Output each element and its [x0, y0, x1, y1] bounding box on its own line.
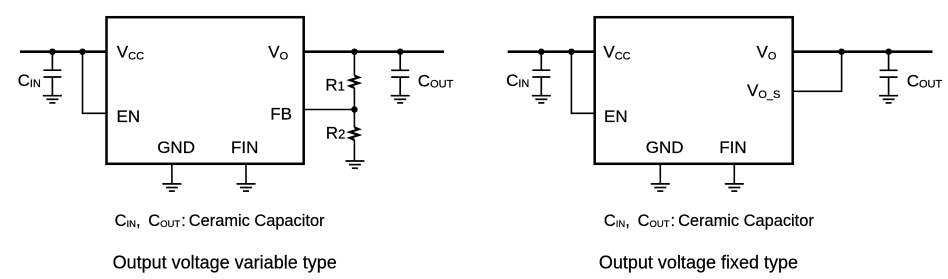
svg-text:GND: GND: [646, 138, 684, 157]
svg-text:Output voltage variable type: Output voltage variable type: [113, 253, 337, 273]
resistor R1: [350, 76, 359, 88]
svg-text:R1: R1: [325, 76, 345, 95]
ground (below CIN right): [532, 96, 551, 103]
wire VO_S feedback: [794, 52, 842, 92]
ground (GND pin, left): [162, 184, 181, 191]
svg-text:EN: EN: [604, 107, 628, 126]
wire EN riser: [83, 52, 107, 114]
capacitor C2 COUT (left): [391, 52, 409, 95]
svg-text:FIN: FIN: [719, 138, 746, 157]
IC U2 (regulator block, right): [595, 17, 793, 164]
capacitor C3 CIN (right): [532, 52, 550, 96]
node CIN junction (right): [538, 48, 545, 55]
ground (below COUT right): [879, 96, 898, 103]
ground (below CIN left): [43, 96, 62, 103]
ground (FIN pin, right): [725, 184, 744, 191]
svg-text:R2: R2: [326, 124, 346, 143]
capacitor C4 COUT (right): [880, 52, 898, 95]
capacitor C1 CIN (left): [43, 52, 61, 96]
svg-text:GND: GND: [157, 138, 195, 157]
wire GND pin lead: [171, 165, 173, 184]
wire FIN pin lead: [245, 165, 247, 184]
wire GND pin lead (right): [659, 165, 661, 184]
node COUT junction (right): [885, 48, 892, 55]
wire R1 top lead: [353, 52, 355, 76]
wire VO bus (right output): [792, 50, 933, 53]
node COUT junction (left): [397, 48, 404, 55]
wire R2 bottom lead: [353, 140, 355, 161]
wire VO bus (left output): [303, 50, 444, 53]
wire VIN bus (left input): [20, 50, 107, 53]
node EN tap junction (right): [568, 48, 575, 55]
ground (below R2): [345, 161, 364, 168]
svg-text:EN: EN: [117, 107, 141, 126]
wire R2 top lead: [353, 110, 355, 128]
ground (GND pin, right): [651, 184, 670, 191]
node EN tap junction: [79, 48, 86, 55]
resistor R2: [350, 127, 359, 139]
ground (below COUT left): [391, 96, 410, 103]
wire EN riser (right): [571, 52, 594, 114]
svg-text:FB: FB: [270, 104, 292, 123]
node CIN junction: [49, 48, 56, 55]
svg-text:FIN: FIN: [231, 138, 258, 157]
wire FIN pin lead (right): [733, 165, 735, 184]
node R1 top junction: [351, 48, 358, 55]
node VO_S junction: [838, 48, 845, 55]
node FB junction: [351, 106, 358, 113]
wire VIN bus (right input): [508, 50, 596, 53]
ground (FIN pin, left): [237, 184, 256, 191]
IC U1 (regulator block, left): [107, 17, 304, 164]
svg-text:Output voltage fixed type: Output voltage fixed type: [599, 253, 798, 273]
wire R1 bottom lead: [353, 88, 355, 110]
wire FB: [304, 109, 354, 111]
